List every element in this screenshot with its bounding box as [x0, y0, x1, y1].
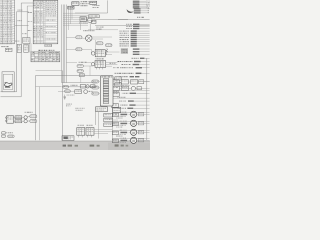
wire label62 to K4 — [66, 62, 77, 64]
small box y74 — [79, 74, 84, 77]
K3 coil circle — [91, 52, 95, 56]
label plate below CN1 — [0, 46, 3, 47]
sensor label S2 — [92, 86, 99, 89]
grid wire d — [144, 81, 150, 83]
K4 wires right — [106, 61, 118, 63]
label y104 dashes — [66, 103, 68, 106]
fuse small box b — [15, 120, 22, 123]
oval label lower left — [76, 48, 82, 51]
safety relay label — [96, 57, 97, 60]
machine view box outer — [2, 72, 14, 92]
bundle wire V7 — [71, 8, 73, 20]
relay grid extra text 2 — [113, 90, 115, 93]
cab enclosure left edge — [35, 76, 37, 141]
band lower box right — [113, 107, 121, 112]
wire M2 to left — [82, 37, 86, 39]
trunk wire x62 down — [61, 71, 63, 141]
wire turn A to left margin — [1, 91, 17, 93]
relay box K2 vertical strip — [24, 44, 28, 52]
wire oval to bundle b — [66, 48, 75, 50]
gauge interlabel 2 — [116, 126, 118, 129]
bundle elbow to lower band — [62, 82, 97, 84]
grid wire b — [128, 81, 130, 83]
hour meter M2 circle — [86, 35, 92, 41]
row y61 long title — [118, 61, 120, 62]
relay bank grid — [113, 80, 119, 84]
ECU block title — [101, 76, 103, 77]
wire tag T3 — [22, 32, 23, 35]
ECU right small box row1 — [115, 77, 121, 80]
sensor label S1 — [92, 80, 99, 83]
ECU wire right 2 — [113, 83, 115, 85]
left bus wire bottom-right — [111, 96, 113, 140]
wire oval to bundle a — [66, 36, 75, 38]
safety relay K4 — [95, 61, 106, 68]
battery label text — [81, 1, 83, 2]
wire pair down from CN3 — [28, 43, 30, 52]
scanner bar marks right — [115, 144, 119, 146]
K3 wires right — [105, 51, 119, 53]
trunk C tick 2 — [28, 20, 29, 23]
trunk C top elbow — [27, 5, 33, 7]
text y95 cluster — [67, 94, 68, 97]
ground symbol — [63, 97, 66, 99]
bundle wire V5 — [67, 7, 69, 31]
K4 right label — [110, 62, 112, 65]
relay K5 — [77, 128, 85, 136]
row y76 — [120, 76, 122, 77]
legend row 1 — [2, 132, 5, 134]
ECU connector block outline — [100, 76, 113, 106]
scanner bar marks center — [63, 145, 66, 147]
wire M2 down to K3 — [95, 40, 97, 50]
wire oval65 to K4 — [83, 65, 93, 67]
right margin bus wire — [146, 58, 148, 140]
wire tag T4 — [15, 40, 17, 43]
gauge G2 with circle — [112, 120, 150, 122]
connector CN1 column line a — [2, 0, 4, 44]
scanner bed bar at bottom — [0, 142, 150, 151]
bundle wire V6 — [69, 7, 71, 25]
starter circle pair — [24, 116, 27, 119]
connector CN1 bottom edge — [0, 43, 15, 45]
K4 coil drop wire — [89, 66, 91, 76]
wire down from starter — [89, 23, 91, 30]
key switch legend text — [96, 26, 98, 29]
relay box K1 vertical strip — [17, 44, 21, 52]
gauge interlabel 3 — [116, 135, 118, 138]
harness wire trunk C — [26, 6, 28, 38]
long wire upper right — [118, 18, 150, 20]
connector CN1 column line c — [10, 0, 12, 44]
band lower box — [96, 107, 108, 112]
row y58 — [132, 58, 134, 59]
title block box — [62, 136, 74, 141]
right wire rows y48-55 — [133, 48, 140, 49]
relay wires right — [94, 129, 112, 131]
wire loom swoosh — [127, 9, 134, 13]
gauge G3 with circle — [112, 129, 150, 131]
sender unit ovals — [76, 36, 82, 39]
option label O1 — [104, 113, 113, 117]
bundle wire V2 — [62, 5, 64, 83]
relay K3 with diode — [95, 50, 105, 57]
wire branch mid to strip — [15, 24, 29, 26]
label y65 oval — [77, 65, 83, 68]
band boxes b — [75, 90, 82, 94]
engine frame bottom edge — [75, 12, 108, 14]
bundle wire V4 — [65, 5, 67, 83]
right wire rows y30-47 — [120, 31, 121, 32]
fusible link box F1 — [72, 2, 79, 6]
connector CN2 small pair — [6, 48, 13, 51]
ECU wire right 1 — [113, 77, 115, 79]
scanner bar right darkening — [108, 143, 150, 150]
row y64 — [122, 64, 124, 65]
battery terminal circles — [6, 117, 8, 119]
band lower text — [75, 107, 78, 110]
wiring list table frame — [33, 0, 58, 44]
band oval b — [65, 90, 71, 93]
connector CN1 right edge — [14, 0, 16, 44]
wire oval-K3 — [82, 48, 91, 50]
bundle wire V3 — [64, 5, 66, 83]
grid wire c — [119, 87, 131, 89]
grid wire a — [119, 82, 121, 84]
resistor ladder small — [106, 48, 108, 52]
page bottom edge shadow — [0, 141, 150, 142]
inner enclosure edge h — [36, 86, 62, 88]
band oval a — [63, 85, 69, 88]
wire bus y29.8 — [88, 29, 118, 31]
legend row 2 — [2, 135, 5, 137]
label oval x106 y44 — [105, 44, 112, 47]
loom label rows — [134, 8, 141, 9]
trunk C tick 1 — [28, 11, 30, 14]
right rows y24-30 — [125, 23, 128, 26]
ECU pin column — [103, 79, 109, 81]
label under table — [45, 44, 52, 46]
wire down from switch — [80, 22, 82, 30]
fuse small box a — [15, 116, 22, 119]
wire x80 down — [80, 76, 82, 82]
fuse table grid — [31, 52, 60, 62]
harness wire trunk A — [16, 12, 18, 92]
ECU wire right 3 — [113, 89, 150, 91]
junction label above long wire — [137, 17, 138, 18]
alternator label box — [89, 15, 100, 18]
connector CN3 — [23, 38, 30, 44]
relay grid extra text 1 — [122, 84, 124, 87]
machine sketch — [4, 83, 12, 87]
inner enclosure edge v — [38, 87, 40, 141]
wire branch top to strip — [17, 11, 29, 13]
vertical text block legend — [121, 48, 128, 54]
row y67 — [113, 66, 115, 69]
fuse table title — [39, 50, 41, 51]
branch wires to ignition cluster — [63, 12, 88, 14]
oval label right a — [30, 115, 37, 118]
wire turn B to left margin — [1, 96, 22, 98]
row y73 long title — [115, 73, 117, 74]
gauge G4 with circle — [112, 137, 150, 139]
label y62 — [79, 61, 81, 64]
K4 coil circle — [91, 62, 94, 65]
machine view box inner — [3, 74, 12, 89]
ignition switch cluster — [80, 17, 86, 22]
label y70 oval — [77, 70, 83, 73]
option label O2 — [104, 118, 113, 122]
wiring list table text — [34, 0, 35, 3]
K3 zigzag resistor — [105, 50, 107, 55]
glow plug small box — [91, 20, 96, 23]
harness label stack rows — [133, 1, 140, 2]
starting circuit label — [25, 111, 27, 114]
sensor label S3 — [92, 92, 99, 95]
row y101 — [119, 100, 121, 103]
gauge interlabel 1 — [116, 117, 117, 120]
gauge G1 with circle — [112, 111, 150, 113]
wire pair from M2 — [92, 36, 112, 38]
starting wire a — [13, 116, 24, 118]
starter pigtail text — [92, 4, 95, 7]
fuse box F2 — [68, 6, 74, 9]
connector pin ladder CN1 rows — [0, 0, 15, 2]
band wire y91 — [58, 90, 75, 92]
wire x98 vertical — [97, 112, 99, 139]
harness wire trunk B — [20, 3, 22, 97]
cab enclosure top edge — [36, 75, 101, 77]
relay labels bottom — [78, 124, 80, 127]
trunk wire elbow y70 — [36, 70, 63, 72]
bundle wire V1 — [61, 5, 63, 83]
relay K6 — [86, 128, 94, 136]
row y108 — [119, 107, 120, 110]
box row y104 — [112, 104, 119, 108]
oil pressure label — [83, 30, 84, 31]
option label O3 — [104, 123, 113, 127]
battery box B1 — [7, 116, 14, 124]
engine frame right edge — [107, 0, 109, 13]
ECU right small box row2 — [115, 83, 121, 86]
starter box M1 — [90, 1, 97, 4]
oval label right of M2 — [96, 42, 103, 45]
page background — [0, 0, 150, 142]
wire glow plug — [93, 19, 128, 21]
wire stub top right of CN1 — [21, 2, 33, 4]
K4 pin stubs — [96, 67, 98, 69]
trunk C tick 3 — [28, 29, 30, 32]
wire tag T1 — [17, 9, 18, 12]
relay pin stubs — [77, 135, 79, 137]
connector CN1 column line b — [6, 0, 8, 44]
band text a — [71, 84, 72, 87]
fuse table cell text — [31, 51, 32, 54]
long wire to right at y25.5 — [95, 25, 150, 27]
oval label right b — [30, 120, 37, 123]
row y98 — [112, 97, 150, 99]
band cluster boxes — [80, 85, 85, 88]
wire x95 down — [94, 112, 96, 125]
wire tag T2 — [17, 19, 18, 22]
